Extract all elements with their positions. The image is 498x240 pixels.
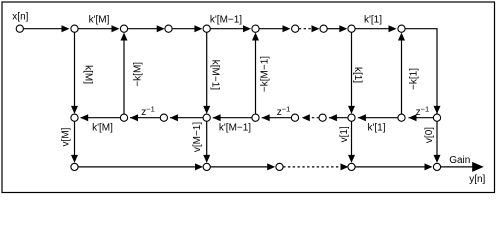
wire middle M8 to M7 (k'[1] branch)	[358, 117, 398, 119]
arrowhead down k[1] into M7	[348, 106, 355, 114]
wire k[1] vertical N9 down to M7	[351, 32, 353, 110]
arrowhead down v[M] into B1	[71, 155, 78, 163]
node N7	[292, 25, 299, 32]
arrowhead into N8	[312, 25, 320, 32]
svg-text:x[n]: x[n]	[12, 12, 28, 23]
node B2b	[276, 163, 283, 170]
svg-text:y[n]: y[n]	[469, 174, 485, 185]
arrowhead into N5	[194, 25, 202, 32]
node N5	[203, 25, 210, 32]
wire middle M9 to M8 (z-1 delay)	[409, 117, 434, 119]
arrowhead down v[0] into B4	[434, 155, 441, 163]
wire top N5 to N6	[210, 28, 247, 30]
svg-text:−k[M−1]: −k[M−1]	[260, 56, 271, 92]
wire v[0] vertical M9 down to B4	[436, 121, 438, 159]
svg-text:k'[M−1]: k'[M−1]	[210, 15, 242, 26]
arrowhead up -k[1] into N10	[398, 33, 405, 41]
arrowhead bottom into B2b	[267, 163, 275, 170]
node B3	[348, 163, 355, 170]
arrowhead middle into M8	[409, 114, 417, 121]
arrowhead bottom into B2	[195, 163, 203, 170]
node M3	[160, 114, 167, 121]
node M5	[252, 114, 259, 121]
node N10	[398, 25, 405, 32]
wire middle M5 to M4 (k'[M-1] branch)	[213, 117, 252, 119]
arrowhead middle into M7	[358, 114, 366, 121]
arrowhead into N2	[62, 25, 70, 32]
svg-text:v[1]: v[1]	[339, 126, 350, 142]
wire bottom B2b to B3 dashed continuation	[283, 166, 340, 168]
node B4	[433, 163, 440, 170]
node M9	[433, 114, 440, 121]
arrowhead up -k[M] into N3	[121, 33, 128, 41]
arrowhead down v[1] into B3	[348, 155, 355, 163]
node M8	[398, 114, 405, 121]
node M4	[203, 114, 210, 121]
wire top N8 to N9	[327, 28, 343, 30]
arrowhead middle into M6b	[329, 114, 337, 121]
svg-text:k'[M−1]: k'[M−1]	[219, 123, 251, 134]
node N1 input	[16, 25, 23, 32]
node M7	[348, 114, 355, 121]
wire top N1 to N2	[23, 28, 66, 30]
arrowhead middle into M2	[130, 114, 138, 121]
wire top N6 to N7	[259, 28, 287, 30]
arrowhead down k[M] into M1	[71, 106, 78, 114]
wire top N2 to N3	[78, 28, 115, 30]
node M6	[291, 114, 298, 121]
svg-text:v[M]: v[M]	[61, 127, 72, 146]
arrowhead into N3	[112, 25, 120, 32]
arrowhead into N6	[243, 25, 251, 32]
wire bottom B2 to B2b	[210, 166, 271, 168]
wire middle M7 to M6b	[329, 117, 348, 119]
node M1	[71, 114, 78, 121]
arrowhead up -k[M-1] into N6	[252, 33, 259, 41]
node M2	[120, 114, 127, 121]
arrowhead middle into M6	[302, 114, 310, 121]
arrowhead bottom into B3	[341, 163, 349, 170]
svg-text:k'[M]: k'[M]	[89, 15, 110, 26]
wire v[M-1] vertical M4 down to B2	[206, 121, 208, 159]
arrowhead into N9	[339, 25, 347, 32]
node N9	[348, 25, 355, 32]
wire v[M] vertical M1 down to B1	[74, 121, 76, 159]
svg-text:v[0]: v[0]	[424, 127, 435, 143]
node B1	[71, 163, 78, 170]
wire k[M] vertical N2 down to M1	[74, 32, 76, 110]
node N6	[252, 25, 259, 32]
wire top N10 to corner down to M9	[405, 29, 437, 114]
wire top N4 to N5	[172, 28, 198, 30]
node N2	[71, 25, 78, 32]
svg-text:−k[1]: −k[1]	[409, 68, 420, 90]
wire v[1] vertical M7 down to B3	[351, 121, 353, 159]
node B2	[203, 163, 210, 170]
node N8	[320, 25, 327, 32]
wire -k[M] vertical M2 up to N3	[123, 37, 125, 115]
wire top N3 to N4	[128, 28, 160, 30]
arrowhead into N4	[157, 25, 165, 32]
arrowhead middle into M4	[213, 114, 221, 121]
arrowhead into N7	[283, 25, 291, 32]
svg-text:k'[1]: k'[1]	[364, 15, 382, 26]
arrowhead down k[M-1] into M4	[203, 106, 210, 114]
wire bottom B1 to B2	[78, 166, 199, 168]
arrowhead into N10	[389, 25, 397, 32]
wire top N9 to N10	[355, 28, 393, 30]
arrowhead down into M9	[434, 106, 441, 114]
node N4	[165, 25, 172, 32]
wire bottom B3 to B4	[355, 166, 428, 168]
wire middle M3 to M2 (z-1 delay)	[130, 117, 160, 119]
wire middle M4 to M3	[170, 117, 203, 119]
svg-text:k'[M]: k'[M]	[92, 123, 113, 134]
arrowhead down v[M-1] into B2	[203, 155, 210, 163]
svg-text:k'[1]: k'[1]	[367, 123, 385, 134]
svg-text:Gain: Gain	[449, 155, 470, 166]
svg-text:−k[M]: −k[M]	[133, 62, 144, 87]
arrowhead middle into M1	[80, 114, 88, 121]
svg-text:k[M−1]: k[M−1]	[209, 60, 220, 91]
svg-text:k[1]: k[1]	[352, 67, 363, 83]
arrowhead output y[n]	[472, 162, 484, 172]
wire middle M2 to M1 (k'[M] branch)	[81, 117, 121, 119]
wire middle M6 to M5 (z-1 delay)	[262, 117, 292, 119]
wire k[M-1] vertical N5 down to M4	[206, 32, 208, 110]
wire -k[M-1] vertical M5 up to N6	[255, 37, 257, 115]
svg-text:v[M−1]: v[M−1]	[192, 122, 203, 153]
wire bottom B4 to output arrow	[441, 166, 474, 168]
wire top N7 to N8 dashed continuation	[299, 28, 312, 30]
arrowhead middle into M5	[262, 114, 270, 121]
svg-text:k[M]: k[M]	[82, 65, 93, 84]
node M6b	[319, 114, 326, 121]
node N3	[120, 25, 127, 32]
arrowhead middle into M3	[170, 114, 178, 121]
arrowhead bottom into B4	[425, 163, 433, 170]
wire -k[1] vertical M8 up to N10	[401, 37, 403, 115]
wire middle M6b to M6 dashed continuation	[310, 117, 319, 119]
